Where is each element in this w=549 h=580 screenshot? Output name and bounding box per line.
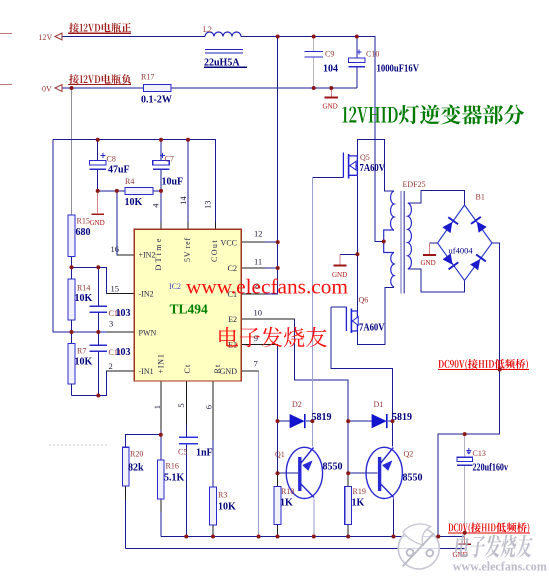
svg-text:GND: GND bbox=[90, 219, 105, 227]
svg-text:B1: B1 bbox=[476, 193, 485, 202]
svg-text:1K: 1K bbox=[352, 498, 365, 509]
svg-text:5.1K: 5.1K bbox=[164, 473, 185, 484]
svg-text:GND: GND bbox=[323, 103, 338, 111]
svg-text:2: 2 bbox=[109, 361, 113, 371]
svg-text:11: 11 bbox=[254, 257, 262, 267]
svg-text:10K: 10K bbox=[125, 197, 143, 208]
svg-text:GND: GND bbox=[220, 367, 238, 376]
svg-text:R17: R17 bbox=[141, 73, 154, 82]
svg-text:R18: R18 bbox=[281, 487, 294, 496]
svg-text:C13: C13 bbox=[473, 449, 486, 458]
svg-text:8550: 8550 bbox=[403, 473, 423, 484]
svg-text:C10: C10 bbox=[366, 50, 379, 59]
svg-text:C8: C8 bbox=[107, 155, 116, 164]
svg-text:5V ref: 5V ref bbox=[183, 237, 192, 262]
svg-text:0.1-2W: 0.1-2W bbox=[141, 95, 172, 106]
svg-text:7: 7 bbox=[254, 359, 258, 369]
svg-text:GND: GND bbox=[421, 259, 436, 267]
svg-text:R3: R3 bbox=[218, 491, 227, 500]
svg-text:7A60V: 7A60V bbox=[359, 323, 385, 334]
svg-text:10: 10 bbox=[254, 308, 263, 318]
svg-text:C2: C2 bbox=[228, 264, 237, 273]
svg-text:R19: R19 bbox=[353, 487, 366, 496]
svg-text:5: 5 bbox=[176, 403, 186, 407]
svg-text:104: 104 bbox=[323, 64, 338, 75]
svg-text:5819: 5819 bbox=[312, 412, 332, 423]
svg-text:R7: R7 bbox=[77, 347, 86, 356]
svg-text:Q2: Q2 bbox=[404, 450, 414, 459]
svg-text:15: 15 bbox=[111, 284, 120, 294]
svg-text:680: 680 bbox=[76, 227, 91, 238]
svg-text:EDF25: EDF25 bbox=[403, 180, 426, 189]
svg-text:22uH5A: 22uH5A bbox=[204, 57, 240, 68]
svg-text:1K: 1K bbox=[280, 498, 293, 509]
svg-text:103: 103 bbox=[116, 308, 131, 319]
svg-text:www.elecfans.com: www.elecfans.com bbox=[186, 275, 348, 299]
svg-text:1: 1 bbox=[152, 405, 162, 409]
svg-text:12: 12 bbox=[254, 229, 263, 239]
svg-text:R14: R14 bbox=[77, 284, 90, 293]
svg-text:R4: R4 bbox=[125, 177, 134, 186]
svg-text:-IN2: -IN2 bbox=[139, 290, 154, 299]
svg-text:Rt: Rt bbox=[213, 364, 222, 374]
svg-text:PWN: PWN bbox=[139, 329, 157, 338]
svg-text:14: 14 bbox=[178, 195, 188, 204]
svg-text:VCC: VCC bbox=[221, 238, 237, 247]
svg-text:R16: R16 bbox=[166, 462, 179, 471]
svg-text:R15: R15 bbox=[77, 217, 90, 226]
svg-text:D1: D1 bbox=[374, 400, 384, 409]
svg-text:103: 103 bbox=[116, 347, 131, 358]
svg-text:D2: D2 bbox=[292, 400, 302, 409]
svg-text:12V: 12V bbox=[39, 33, 53, 42]
svg-text:R20: R20 bbox=[130, 450, 143, 459]
svg-text:10K: 10K bbox=[218, 502, 236, 513]
svg-text:COut: COut bbox=[210, 239, 219, 262]
svg-text:13: 13 bbox=[203, 201, 213, 210]
svg-text:8550: 8550 bbox=[323, 462, 343, 473]
svg-text:IC2: IC2 bbox=[169, 282, 181, 291]
svg-text:C5: C5 bbox=[178, 448, 187, 457]
svg-text:Ct: Ct bbox=[183, 364, 192, 374]
svg-text:0V: 0V bbox=[42, 84, 52, 93]
svg-text:Q1: Q1 bbox=[275, 450, 285, 459]
svg-text:+IN1: +IN1 bbox=[157, 353, 166, 373]
svg-text:E2: E2 bbox=[228, 315, 237, 324]
svg-text:-IN1: -IN1 bbox=[139, 367, 154, 376]
svg-text:1nF: 1nF bbox=[196, 448, 213, 459]
svg-text:10K: 10K bbox=[75, 357, 93, 368]
svg-text:220uf160v: 220uf160v bbox=[473, 463, 509, 474]
svg-text:Q6: Q6 bbox=[359, 296, 369, 305]
svg-text:10uF: 10uF bbox=[162, 177, 184, 188]
svg-text:C7: C7 bbox=[165, 155, 174, 164]
svg-text:C9: C9 bbox=[325, 50, 334, 59]
svg-text:3: 3 bbox=[109, 319, 113, 329]
svg-text:DTime: DTime bbox=[154, 236, 163, 270]
svg-text:9: 9 bbox=[254, 333, 258, 343]
svg-text:www.elecfans.com: www.elecfans.com bbox=[453, 560, 548, 574]
svg-text:Q5: Q5 bbox=[360, 153, 370, 162]
svg-text:1000uF16V: 1000uF16V bbox=[377, 64, 420, 75]
svg-text:+IN2: +IN2 bbox=[139, 251, 156, 260]
svg-text:TL494: TL494 bbox=[170, 302, 209, 317]
svg-text:5819: 5819 bbox=[392, 412, 412, 423]
svg-text:7A60V: 7A60V bbox=[360, 163, 386, 174]
svg-text:uf4004: uf4004 bbox=[449, 246, 474, 256]
svg-text:6: 6 bbox=[204, 405, 214, 409]
svg-text:10K: 10K bbox=[75, 293, 93, 304]
svg-text:16: 16 bbox=[111, 244, 120, 254]
svg-text:82k: 82k bbox=[128, 463, 144, 474]
svg-text:47uF: 47uF bbox=[108, 165, 130, 176]
svg-text:L2: L2 bbox=[203, 25, 212, 34]
